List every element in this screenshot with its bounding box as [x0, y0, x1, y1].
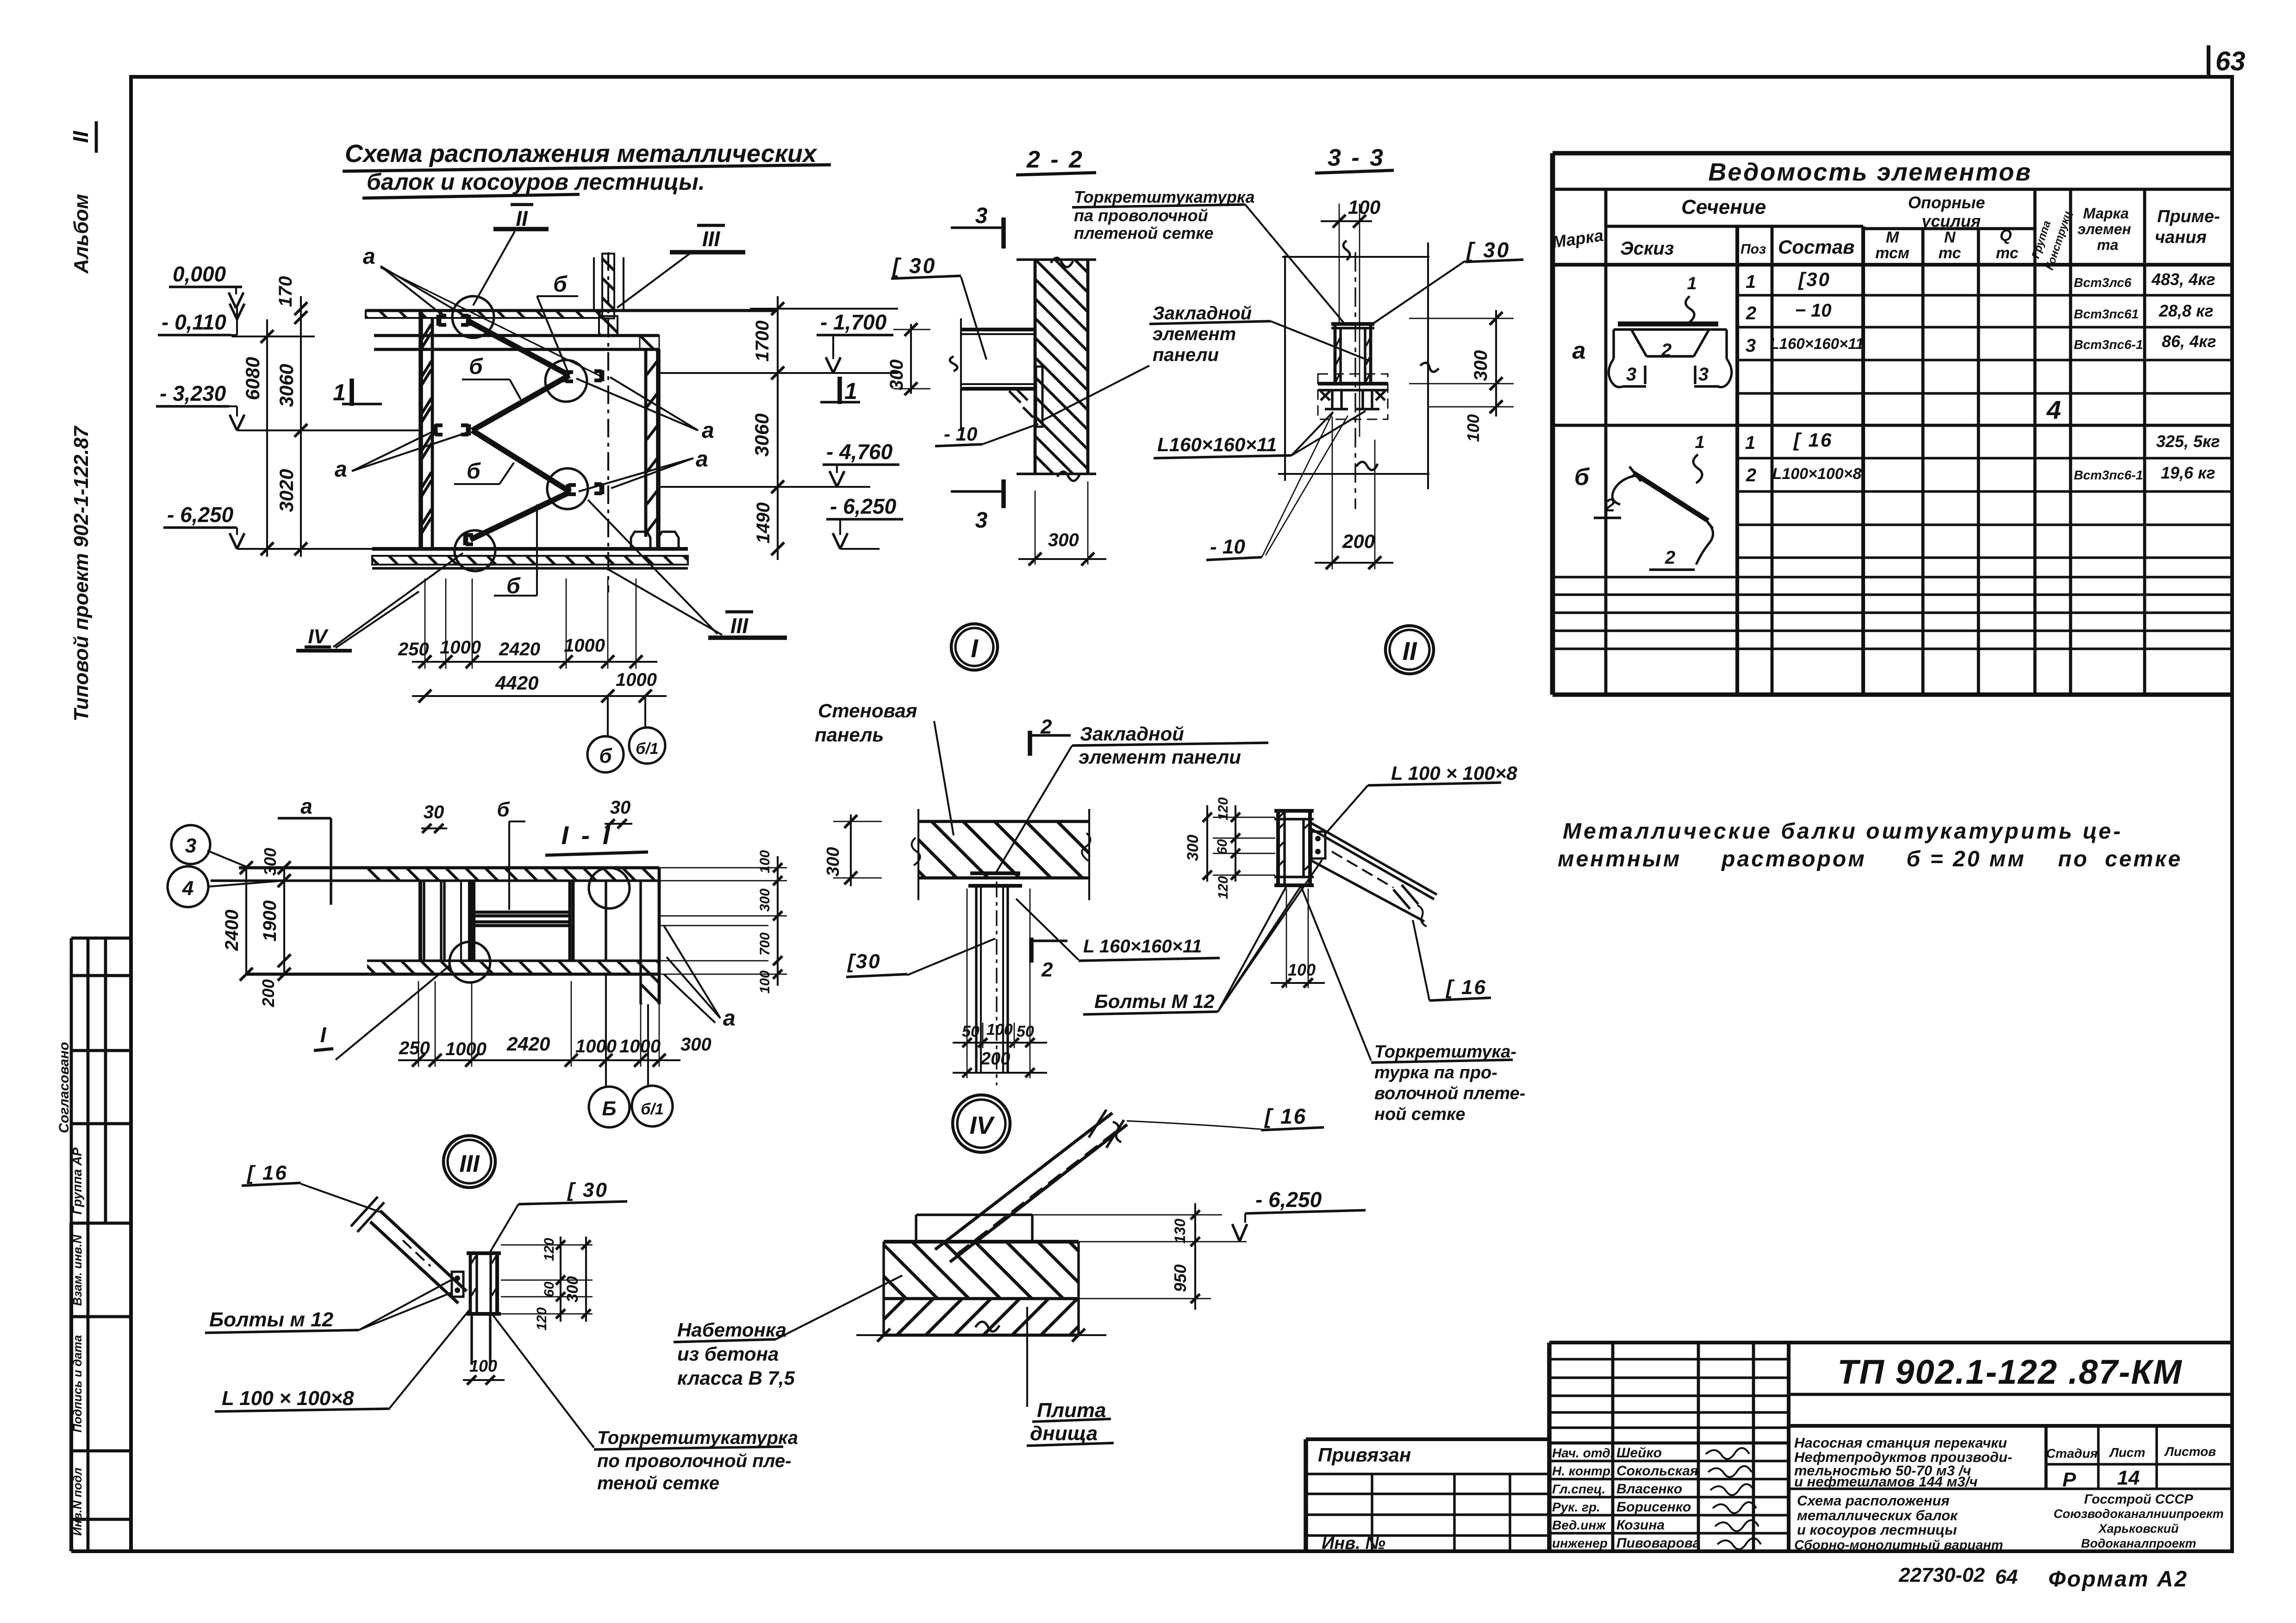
- svg-text:б: б: [469, 354, 483, 379]
- svg-text:170: 170: [275, 276, 296, 307]
- svg-text:днища: днища: [1030, 1422, 1098, 1445]
- column C30 section: [469, 1253, 472, 1314]
- svg-text:L 100 × 100×8: L 100 × 100×8: [1391, 762, 1517, 784]
- centerline: [607, 252, 609, 592]
- stair flight 4: [470, 492, 570, 540]
- svg-text:1: 1: [1745, 433, 1755, 453]
- table body: [1572, 268, 2220, 570]
- detail III: [205, 1136, 798, 1493]
- svg-text:Лист: Лист: [2109, 1445, 2146, 1460]
- svg-text:- 10: - 10: [1210, 535, 1245, 558]
- svg-text:1900: 1900: [260, 901, 280, 942]
- svg-text:3: 3: [1746, 336, 1756, 356]
- svg-text:3: 3: [975, 204, 988, 228]
- svg-text:Альбом: Альбом: [70, 194, 93, 274]
- svg-text:Закладной: Закладной: [1080, 723, 1184, 745]
- svg-text:а: а: [702, 418, 714, 443]
- svg-text:Болты м 12: Болты м 12: [209, 1308, 334, 1331]
- svg-text:[30: [30: [1797, 268, 1831, 290]
- svg-text:[ 16: [ 16: [1793, 429, 1833, 451]
- svg-text:Группа АР: Группа АР: [70, 1147, 84, 1214]
- svg-text:ной сетке: ной сетке: [1374, 1105, 1465, 1124]
- svg-text:1700: 1700: [752, 321, 773, 362]
- wall panel detail: [815, 700, 1322, 1085]
- svg-text:300: 300: [757, 889, 773, 912]
- svg-text:Листов: Листов: [2164, 1444, 2216, 1459]
- svg-text:22730-02: 22730-02: [1898, 1564, 1985, 1586]
- svg-text:Поз: Поз: [1741, 242, 1766, 257]
- axis circle b: [607, 696, 609, 737]
- svg-text:IV: IV: [969, 1112, 995, 1139]
- svg-text:130: 130: [1172, 1219, 1188, 1244]
- dim chain 170/3060/3020: [300, 296, 302, 557]
- svg-text:250: 250: [398, 639, 429, 659]
- svg-text:а: а: [696, 447, 708, 472]
- level lines right: [658, 372, 898, 374]
- riser duct: [602, 254, 614, 318]
- svg-text:Союзводоканалниипроект: Союзводоканалниипроект: [2053, 1507, 2223, 1521]
- svg-text:2: 2: [1746, 303, 1756, 323]
- top slab I-I: [239, 866, 659, 870]
- svg-text:Взам. инв.N: Взам. инв.N: [70, 1234, 84, 1306]
- svg-text:- 6,250: - 6,250: [1255, 1188, 1322, 1212]
- svg-text:Схема расположения: Схема расположения: [1797, 1492, 1950, 1509]
- svg-text:100: 100: [757, 970, 773, 994]
- svg-text:120: 120: [1216, 876, 1231, 899]
- svg-text:Подпись и дата: Подпись и дата: [70, 1335, 84, 1433]
- svg-text:[ 16: [ 16: [1445, 976, 1487, 999]
- callout circle III: [547, 468, 588, 509]
- svg-text:Сборно-монолитный вариант: Сборно-монолитный вариант: [1794, 1538, 2003, 1553]
- svg-text:60: 60: [542, 1281, 557, 1297]
- svg-text:II: II: [69, 131, 93, 143]
- dim 300 wall: [1035, 491, 1036, 565]
- svg-text:2: 2: [1041, 958, 1053, 981]
- nabetonka slab: [884, 1240, 1079, 1244]
- svg-text:б: б: [553, 272, 568, 297]
- svg-text:63: 63: [2215, 46, 2246, 76]
- svg-text:L100×100×8: L100×100×8: [1772, 465, 1862, 483]
- section 3-3: [1039, 144, 1523, 674]
- bottom dim chain I-I: [398, 1059, 680, 1061]
- svg-text:Состав: Состав: [1778, 236, 1854, 258]
- bottom slab: [372, 547, 688, 551]
- svg-text:I - I: I - I: [562, 821, 613, 850]
- main plan: stair shaft elevation: [296, 205, 860, 651]
- column C30: [1334, 324, 1337, 384]
- svg-text:2 - 2: 2 - 2: [1026, 146, 1084, 173]
- beam C30 side view: [961, 328, 1035, 331]
- svg-text:Марка: Марка: [2083, 205, 2129, 222]
- svg-text:Привязан: Привязан: [1318, 1444, 1411, 1466]
- dim 100 below: [1286, 889, 1287, 988]
- dim 300 beam: [910, 324, 912, 394]
- svg-text:120: 120: [542, 1238, 557, 1261]
- svg-text:Согласовано: Согласовано: [56, 1042, 72, 1133]
- svg-text:1000: 1000: [564, 635, 605, 656]
- svg-text:1: 1: [1746, 272, 1756, 292]
- svg-text:2: 2: [1604, 495, 1615, 516]
- svg-text:из бетона: из бетона: [677, 1343, 779, 1365]
- callout circle II: [545, 360, 587, 402]
- svg-text:1000: 1000: [619, 1036, 661, 1057]
- svg-text:Сечение: Сечение: [1681, 196, 1766, 218]
- stair flight 2: [472, 375, 569, 430]
- detail circle II: [1385, 626, 1434, 674]
- svg-text:64: 64: [1995, 1566, 2018, 1588]
- svg-text:2: 2: [1661, 340, 1672, 361]
- diagonal beam C16: [380, 1211, 467, 1291]
- svg-text:30: 30: [424, 802, 444, 822]
- svg-text:1: 1: [333, 379, 346, 405]
- svg-text:1490: 1490: [753, 503, 774, 544]
- svg-text:Пивоварова: Пивоварова: [1616, 1536, 1700, 1551]
- svg-text:а: а: [300, 794, 312, 818]
- svg-text:100: 100: [469, 1356, 497, 1375]
- detail circle IV: [953, 1095, 1010, 1152]
- svg-text:Схема располажения металличе: Схема располажения металлических: [345, 140, 817, 168]
- embed plate: [1036, 367, 1042, 427]
- svg-text:Вст3пс6-1: Вст3пс6-1: [2074, 468, 2143, 482]
- svg-text:300: 300: [1471, 350, 1491, 381]
- svg-text:I: I: [320, 1023, 327, 1047]
- svg-text:200: 200: [259, 979, 278, 1007]
- detail circle III: [443, 1136, 495, 1188]
- svg-text:86, 4кг: 86, 4кг: [2162, 332, 2216, 351]
- svg-text:300: 300: [1184, 835, 1202, 861]
- svg-text:теной сетке: теной сетке: [597, 1473, 719, 1493]
- svg-text:Водоканалпроект: Водоканалпроект: [2081, 1536, 2196, 1550]
- right dim chain 1700/3060/1490: [777, 296, 779, 560]
- dim chain 6080: [266, 319, 268, 557]
- svg-text:и нефтешламов 144 м3/ч: и нефтешламов 144 м3/ч: [1794, 1474, 1978, 1490]
- svg-text:1000: 1000: [440, 637, 481, 658]
- upper floor beam: [374, 334, 659, 337]
- right small dims: [659, 867, 787, 869]
- stair flight 3: [472, 430, 570, 492]
- callout circle I: [452, 296, 494, 338]
- svg-text:- 3,230: - 3,230: [160, 381, 226, 405]
- svg-text:250: 250: [399, 1038, 430, 1058]
- svg-text:L160×160×11: L160×160×11: [1770, 335, 1864, 352]
- svg-text:Типовой проект 902-1-122.87: Типовой проект 902-1-122.87: [70, 425, 93, 721]
- svg-text:Харьковский: Харьковский: [2097, 1522, 2179, 1536]
- svg-text:ментным раствором б =: ментным раствором б = 20 мм по сетке: [1558, 847, 2182, 871]
- svg-text:III: III: [702, 227, 721, 251]
- svg-text:Рук. гр.: Рук. гр.: [1552, 1500, 1600, 1514]
- svg-text:тс: тс: [1996, 244, 2019, 262]
- svg-text:Инв. №: Инв. №: [1322, 1534, 1385, 1553]
- svg-text:а: а: [335, 457, 347, 482]
- svg-text:Б: Б: [602, 1097, 616, 1120]
- svg-text:б: б: [1574, 464, 1590, 491]
- svg-text:элемен: элемен: [2078, 221, 2131, 237]
- svg-text:а: а: [723, 1006, 736, 1031]
- svg-text:L 160×160×11: L 160×160×11: [1083, 936, 1202, 957]
- svg-text:а: а: [1572, 337, 1586, 364]
- svg-text:Стеновая: Стеновая: [818, 700, 917, 721]
- left wall: [418, 311, 423, 549]
- bottom slab plita: [884, 1297, 1079, 1300]
- svg-text:Н. контр.: Н. контр.: [1552, 1464, 1614, 1478]
- svg-text:- 1,700: - 1,700: [820, 310, 887, 334]
- hanging beam C30: [975, 886, 977, 1073]
- bottom slab I-I: [367, 959, 659, 962]
- plan I-I: [168, 794, 787, 1127]
- svg-text:2420: 2420: [499, 639, 540, 659]
- svg-text:Закладной: Закладной: [1153, 303, 1252, 323]
- svg-text:6080: 6080: [242, 357, 263, 400]
- svg-text:чания: чания: [2155, 228, 2207, 247]
- svg-text:Вст3пс61: Вст3пс61: [2074, 307, 2139, 321]
- dims 120/60/120 + 300: [1235, 805, 1236, 882]
- beam end marks: [437, 315, 442, 326]
- svg-text:плетеной сетке: плетеной сетке: [1074, 224, 1214, 243]
- diagonal beam C16: [1310, 822, 1437, 895]
- callout circle IV: [455, 530, 495, 571]
- svg-text:Насосная станция перекачки: Насосная станция перекачки: [1794, 1435, 2007, 1451]
- svg-text:− 10: − 10: [1795, 300, 1832, 321]
- svg-text:III: III: [730, 614, 749, 638]
- svg-text:3: 3: [975, 508, 988, 533]
- bearing pad: [916, 1213, 1032, 1216]
- svg-text:[ 16: [ 16: [1264, 1104, 1307, 1128]
- embed plate under panel: [970, 871, 1020, 875]
- svg-text:1000: 1000: [616, 670, 657, 690]
- axis circles 3 and 4: [171, 825, 210, 864]
- top slab: [366, 311, 600, 318]
- svg-text:II: II: [516, 206, 528, 230]
- svg-text:50: 50: [962, 1023, 980, 1040]
- boundary lines: [1284, 255, 1286, 481]
- svg-text:Козина: Козина: [1616, 1517, 1665, 1533]
- svg-text:3020: 3020: [275, 469, 297, 512]
- svg-text:3 - 3: 3 - 3: [1328, 144, 1385, 171]
- svg-text:60: 60: [1215, 839, 1230, 855]
- svg-text:200: 200: [980, 1049, 1010, 1069]
- svg-text:3: 3: [1698, 364, 1709, 385]
- svg-text:483, 4кг: 483, 4кг: [2151, 270, 2215, 289]
- plate with bolts: [452, 1272, 463, 1297]
- svg-text:3060: 3060: [275, 364, 297, 407]
- svg-text:Сокольская: Сокольская: [1616, 1463, 1698, 1479]
- gusset with bolts: [1311, 832, 1325, 858]
- svg-text:Набетонка: Набетонка: [677, 1319, 786, 1341]
- svg-text:класса В 7,5: класса В 7,5: [677, 1367, 795, 1389]
- svg-text:1: 1: [1687, 274, 1697, 293]
- section 2-2: [886, 146, 1345, 670]
- svg-text:Шейко: Шейко: [1616, 1445, 1662, 1461]
- svg-text:[ 30: [ 30: [1466, 238, 1510, 262]
- svg-text:14: 14: [2117, 1467, 2140, 1489]
- svg-text:200: 200: [1342, 530, 1375, 552]
- svg-text:300: 300: [1048, 530, 1079, 550]
- svg-text:Гл.спец.: Гл.спец.: [1552, 1482, 1605, 1496]
- table vedomost elementov: [1551, 153, 2231, 695]
- svg-text:Власенко: Власенко: [1616, 1481, 1682, 1497]
- svg-text:3: 3: [185, 834, 196, 857]
- stair flight 1: [468, 321, 569, 375]
- walls and beams in plan: [418, 881, 422, 961]
- svg-text:[30: [30: [847, 950, 881, 973]
- svg-text:б/1: б/1: [641, 1101, 663, 1118]
- svg-text:Приме-: Приме-: [2157, 207, 2220, 226]
- dims 120/60/120 + 300: [560, 1237, 562, 1322]
- svg-text:100: 100: [986, 1021, 1013, 1038]
- base plate: [1318, 382, 1388, 386]
- svg-text:Вст3лс6: Вст3лс6: [2074, 275, 2132, 290]
- left dims 2400/1900/300/200: [245, 868, 247, 974]
- svg-text:Q: Q: [2000, 227, 2012, 244]
- dim 300 panel: [850, 815, 852, 886]
- dims 50 100 50 / 200: [967, 889, 968, 1078]
- sidebar stamp column: [56, 121, 131, 1551]
- svg-text:ТП 902.1-122 .87-КМ: ТП 902.1-122 .87-КМ: [1837, 1353, 2182, 1391]
- svg-text:элемент: элемент: [1153, 324, 1236, 344]
- svg-text:- 6,250: - 6,250: [167, 503, 234, 527]
- bottom dim chain 250/1000/2420/1000: [412, 661, 657, 663]
- svg-text:700: 700: [757, 933, 773, 956]
- svg-text:б: б: [599, 745, 612, 767]
- dim 300/100 right: [1495, 310, 1497, 417]
- svg-text:Опорные: Опорные: [1908, 193, 1985, 212]
- svg-text:2400: 2400: [222, 910, 242, 951]
- svg-text:[ 30: [ 30: [892, 254, 936, 278]
- svg-text:30: 30: [610, 797, 631, 818]
- svg-text:Стадия: Стадия: [2046, 1446, 2098, 1461]
- svg-text:I: I: [971, 634, 979, 663]
- svg-text:L 100 × 100×8: L 100 × 100×8: [222, 1387, 354, 1410]
- section mark 3 bottom: [951, 490, 1004, 492]
- svg-text:- 4,760: - 4,760: [826, 440, 893, 464]
- svg-text:Вед.инж: Вед.инж: [1552, 1518, 1606, 1532]
- svg-text:Ведомость элементов: Ведомость элементов: [1708, 158, 2032, 186]
- svg-text:балок и косоуров лестницы.: балок и косоуров лестницы.: [367, 169, 705, 195]
- svg-text:б/1: б/1: [636, 740, 658, 758]
- svg-text:[ 16: [ 16: [246, 1162, 288, 1184]
- svg-text:Борисенко: Борисенко: [1616, 1499, 1691, 1515]
- svg-text:120: 120: [1216, 797, 1231, 821]
- svg-text:та: та: [2097, 236, 2118, 253]
- detail IV: [674, 1095, 1366, 1446]
- callout circles I-I: [589, 868, 630, 908]
- pit curb: [631, 532, 650, 549]
- svg-text:120: 120: [534, 1307, 549, 1331]
- axis circles B B/1: [605, 974, 607, 1087]
- svg-text:Госстрой СССР: Госстрой СССР: [2084, 1492, 2193, 1507]
- svg-text:2420: 2420: [506, 1033, 550, 1055]
- svg-text:II: II: [1402, 636, 1417, 665]
- svg-text:Торкретштукатурка: Торкретштукатурка: [597, 1428, 798, 1448]
- svg-text:19,6 кг: 19,6 кг: [2161, 463, 2215, 482]
- svg-text:1: 1: [844, 378, 857, 404]
- svg-text:Эскиз: Эскиз: [1620, 238, 1674, 259]
- stadia list listov: [2045, 1426, 2048, 1489]
- svg-text:4: 4: [182, 877, 193, 900]
- page number 63: [2207, 45, 2210, 76]
- svg-text:элемент панели: элемент панели: [1079, 746, 1241, 768]
- wall section 2-2: [1035, 260, 1088, 474]
- panel slab: [918, 820, 1089, 823]
- svg-text:Болты М 12: Болты М 12: [1094, 990, 1215, 1012]
- svg-text:турка па про-: турка па про-: [1374, 1063, 1497, 1082]
- svg-text:3060: 3060: [751, 413, 773, 456]
- svg-text:Торкретштукатурка: Торкретштукатурка: [1074, 187, 1255, 206]
- svg-text:100: 100: [757, 850, 773, 873]
- svg-text:- 0,110: - 0,110: [162, 310, 226, 334]
- svg-text:28,8 кг: 28,8 кг: [2159, 301, 2214, 320]
- svg-text:М: М: [1886, 229, 1899, 246]
- svg-text:па проволочной: па проволочной: [1074, 206, 1208, 225]
- svg-text:III: III: [459, 1150, 480, 1177]
- svg-text:950: 950: [1171, 1264, 1190, 1292]
- svg-text:Инв.N подл: Инв.N подл: [70, 1468, 84, 1536]
- bottom dim chain 4420/1000: [412, 695, 667, 697]
- svg-text:[ 30: [ 30: [567, 1179, 608, 1201]
- dim 100: [463, 1379, 505, 1381]
- svg-text:Формат А2: Формат А2: [2048, 1567, 2188, 1592]
- svg-text:3: 3: [1626, 364, 1636, 385]
- detail with L100x100x8: [1184, 762, 1525, 1124]
- svg-text:тсм: тсм: [1875, 244, 1909, 262]
- svg-text:300: 300: [261, 848, 280, 876]
- svg-text:- 10: - 10: [944, 423, 977, 445]
- svg-text:волочной плете-: волочной плете-: [1374, 1084, 1525, 1103]
- dims 130/950: [1194, 1203, 1196, 1310]
- svg-text:300: 300: [680, 1034, 711, 1055]
- detail circle I: [951, 624, 998, 670]
- inclined beam C16: [935, 1113, 1112, 1250]
- svg-text:325, 5кг: 325, 5кг: [2156, 432, 2220, 451]
- svg-text:б: б: [497, 798, 510, 821]
- svg-text:панели: панели: [1153, 345, 1219, 365]
- svg-text:1000: 1000: [445, 1039, 487, 1059]
- svg-text:IV: IV: [308, 625, 329, 648]
- svg-text:тс: тс: [1939, 244, 1961, 262]
- svg-text:1000: 1000: [575, 1036, 617, 1057]
- svg-text:300: 300: [824, 847, 843, 876]
- svg-text:2: 2: [1746, 465, 1756, 485]
- svg-text:Вст3пс6-1: Вст3пс6-1: [2074, 337, 2143, 352]
- svg-text:1: 1: [1695, 433, 1704, 452]
- svg-text:300: 300: [564, 1276, 581, 1303]
- column continuation: [470, 1314, 473, 1365]
- axis circle b/1: [644, 696, 646, 728]
- centerline 3-3: [1354, 252, 1356, 509]
- svg-text:а: а: [363, 244, 375, 269]
- svg-text:100: 100: [1464, 414, 1483, 442]
- svg-text:- 6,250: - 6,250: [830, 494, 897, 518]
- svg-text:300: 300: [886, 360, 907, 391]
- svg-text:металлических балок: металлических балок: [1797, 1507, 1958, 1524]
- svg-text:100: 100: [1288, 960, 1316, 979]
- svg-text:N: N: [1944, 229, 1956, 246]
- title block: [1306, 1343, 2231, 1553]
- column C30 channel: [1276, 811, 1280, 885]
- svg-text:инженер: инженер: [1552, 1536, 1608, 1550]
- svg-text:панель: панель: [815, 724, 884, 746]
- svg-text:Нач. отд.: Нач. отд.: [1552, 1446, 1614, 1460]
- svg-text:4: 4: [2046, 395, 2061, 424]
- svg-text:Торкретштука-: Торкретштука-: [1374, 1042, 1516, 1062]
- svg-text:и косоуров лестницы: и косоуров лестницы: [1797, 1522, 1957, 1538]
- svg-text:4420: 4420: [495, 672, 538, 694]
- svg-text:б: б: [467, 459, 481, 484]
- svg-text:50: 50: [1017, 1023, 1034, 1040]
- svg-text:2: 2: [1665, 547, 1675, 568]
- svg-text:по проволочной пле-: по проволочной пле-: [597, 1451, 792, 1471]
- svg-text:L160×160×11: L160×160×11: [1157, 434, 1277, 455]
